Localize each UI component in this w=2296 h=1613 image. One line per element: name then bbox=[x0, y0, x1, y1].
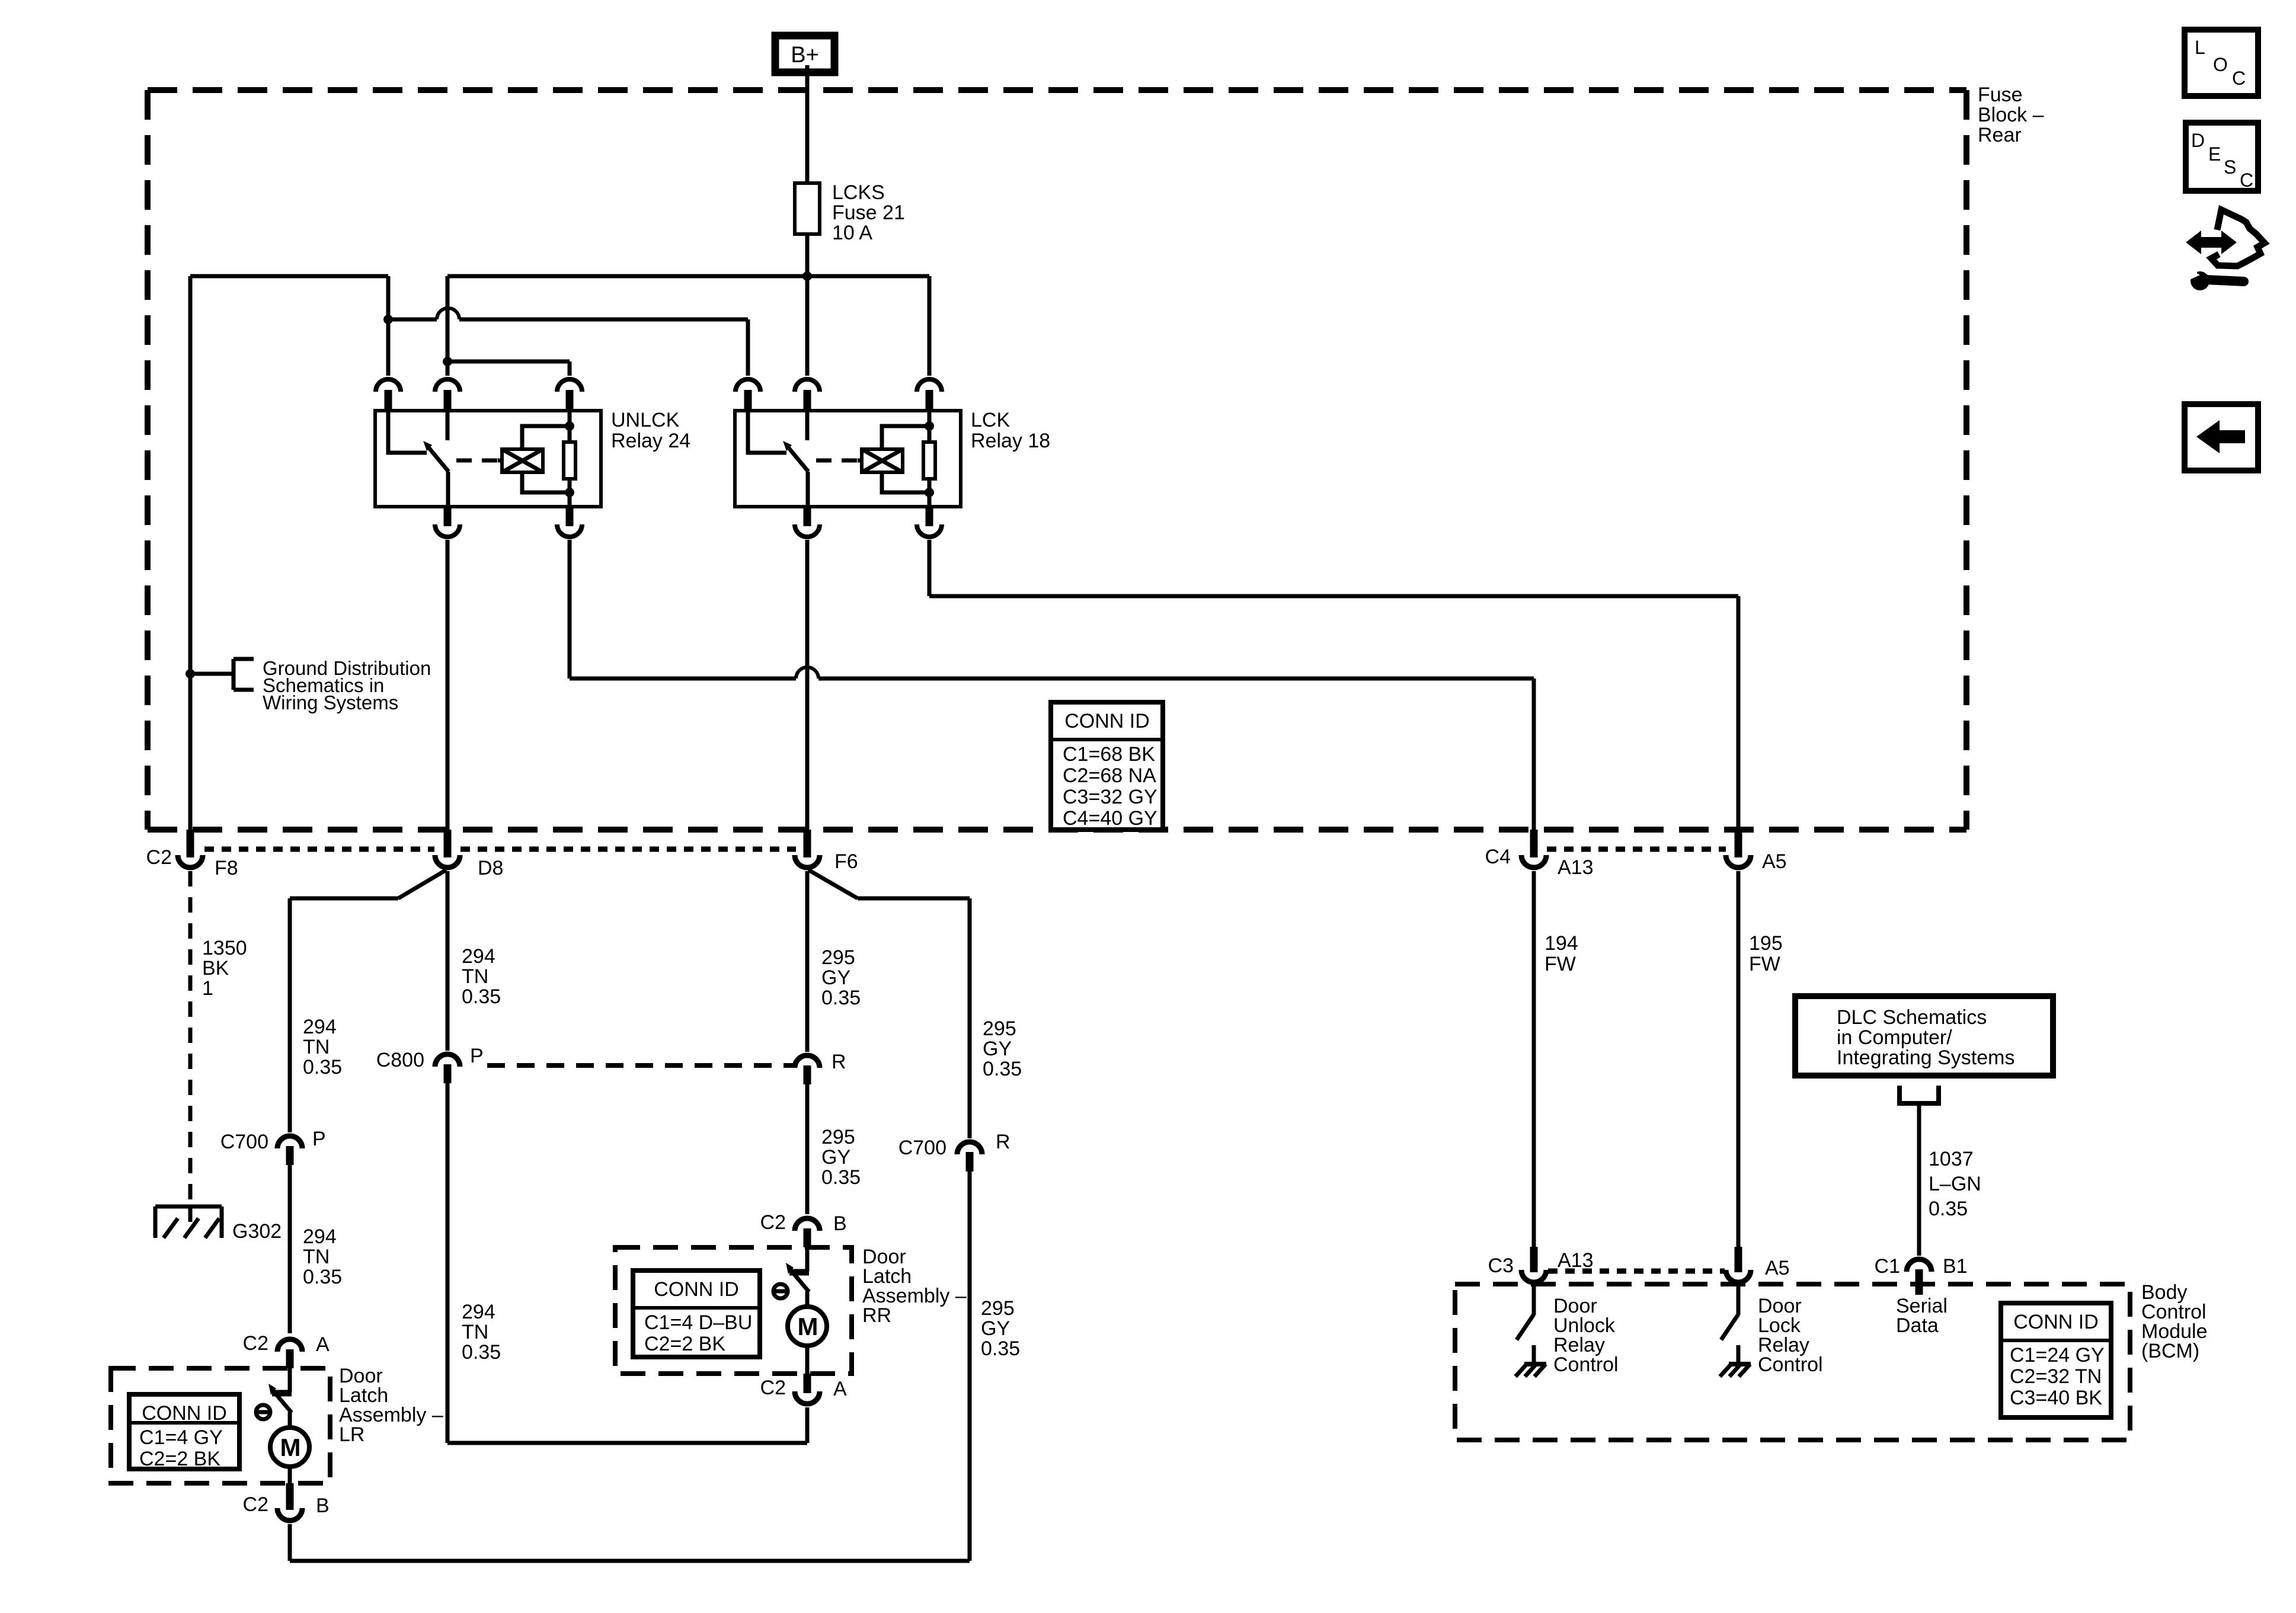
svg-text:0.35: 0.35 bbox=[303, 1056, 342, 1078]
relay coil bbox=[502, 449, 543, 472]
svg-text:A: A bbox=[833, 1378, 847, 1400]
relay coil actuation dashes bbox=[816, 459, 858, 463]
relay top pin 2 bbox=[435, 379, 460, 392]
svg-text:TN: TN bbox=[462, 965, 488, 988]
svg-text:Data: Data bbox=[1896, 1314, 1939, 1337]
svg-text:BK: BK bbox=[202, 957, 229, 980]
relay bottom pin 2 bbox=[795, 524, 820, 537]
svg-text:B1: B1 bbox=[1943, 1255, 1968, 1278]
svg-text:294: 294 bbox=[303, 1016, 337, 1038]
svg-text:C2: C2 bbox=[146, 846, 172, 869]
svg-text:C3: C3 bbox=[1488, 1254, 1514, 1277]
wire C800 R down to RR latch bbox=[805, 1084, 810, 1214]
wire LCK pin2 bottom to F6 bbox=[805, 540, 810, 830]
door latch top connector bbox=[277, 1339, 302, 1352]
svg-text:FW: FW bbox=[1544, 953, 1576, 975]
ground distribution schematics pointer bbox=[190, 672, 234, 676]
relay box LCK Relay 18 bbox=[735, 411, 961, 507]
wire LCK pin3 bottom to A5 bbox=[928, 540, 932, 596]
svg-text:C3=40 BK: C3=40 BK bbox=[2010, 1387, 2102, 1409]
svg-text:C700: C700 bbox=[898, 1137, 946, 1159]
svg-text:C2: C2 bbox=[760, 1377, 786, 1399]
wire 1350 BK dashed to G302 bbox=[188, 871, 193, 1210]
door latch switch bbox=[805, 1247, 810, 1271]
svg-text:295: 295 bbox=[821, 946, 855, 969]
svg-text:LR: LR bbox=[339, 1423, 364, 1446]
svg-text:TN: TN bbox=[303, 1036, 330, 1058]
svg-text:Control: Control bbox=[1758, 1353, 1823, 1376]
connector D8 bbox=[444, 830, 452, 857]
svg-text:LCKS: LCKS bbox=[832, 181, 885, 204]
svg-text:1: 1 bbox=[202, 977, 213, 1000]
door latch bottom connector bbox=[804, 1374, 811, 1393]
svg-text:O: O bbox=[2213, 54, 2228, 75]
ground G302 bbox=[155, 1205, 222, 1209]
door latch dashed box bbox=[111, 1368, 330, 1483]
svg-text:DLC Schematics: DLC Schematics bbox=[1837, 1006, 1987, 1029]
relay internal nodes bbox=[565, 421, 574, 431]
svg-text:B: B bbox=[316, 1494, 330, 1517]
wire UNLCK pin3 bottom to C4 (hops over x=1362) bbox=[568, 540, 572, 679]
dashed link C800 P to R bbox=[487, 1063, 794, 1068]
svg-text:E: E bbox=[2208, 143, 2221, 165]
DLC bracket bbox=[1900, 1086, 1939, 1103]
svg-text:P: P bbox=[470, 1045, 484, 1067]
wire D8 straight down to C800 P bbox=[446, 871, 450, 1051]
svg-text:GY: GY bbox=[821, 966, 850, 989]
svg-text:A5: A5 bbox=[1765, 1257, 1790, 1279]
connector A5 (BCM) bbox=[1735, 1247, 1742, 1272]
svg-text:Block –: Block – bbox=[1978, 104, 2044, 126]
relay bottom pin 3 bbox=[917, 524, 942, 537]
svg-text:0.35: 0.35 bbox=[821, 987, 861, 1009]
svg-text:B: B bbox=[833, 1212, 847, 1235]
svg-text:A13: A13 bbox=[1558, 1249, 1594, 1272]
svg-text:195: 195 bbox=[1749, 932, 1783, 955]
svg-text:Fuse: Fuse bbox=[1978, 84, 2023, 106]
wire A5 down to BCM bbox=[1737, 871, 1741, 1247]
connector C4 A13 bbox=[1530, 830, 1538, 857]
connector A5 (fuse block) bbox=[1735, 830, 1742, 857]
relay internal nodes bbox=[925, 421, 934, 431]
svg-text:10 A: 10 A bbox=[832, 222, 872, 244]
door latch top connector bbox=[795, 1218, 820, 1231]
DLC schematics box bbox=[1795, 996, 2053, 1076]
icon back arrow bbox=[2185, 404, 2258, 471]
BCM dashed box bbox=[1455, 1284, 2130, 1440]
coil parallel loops bbox=[522, 426, 570, 449]
svg-text:UNLCK: UNLCK bbox=[611, 409, 680, 431]
icon LOC bbox=[2185, 30, 2258, 96]
svg-text:C4: C4 bbox=[1485, 846, 1511, 868]
svg-text:1350: 1350 bbox=[202, 937, 247, 959]
wire RR latch A to return bbox=[805, 1407, 810, 1443]
wire C4 A13 down to BCM bbox=[1532, 871, 1536, 1247]
svg-text:0.35: 0.35 bbox=[981, 1337, 1020, 1360]
connector row dotted lines bbox=[204, 847, 434, 852]
CONN ID table bbox=[633, 1270, 760, 1357]
svg-text:G302: G302 bbox=[232, 1220, 282, 1243]
svg-text:C: C bbox=[2240, 169, 2253, 191]
svg-text:C1=68 BK: C1=68 BK bbox=[1063, 743, 1155, 766]
relay coil bbox=[862, 449, 903, 472]
svg-text:A5: A5 bbox=[1762, 850, 1787, 873]
svg-text:GY: GY bbox=[821, 1146, 850, 1169]
svg-text:C2: C2 bbox=[243, 1493, 268, 1516]
battery feed B+ bbox=[775, 36, 834, 72]
svg-text:194: 194 bbox=[1544, 932, 1578, 955]
svg-text:RR: RR bbox=[862, 1304, 891, 1327]
icon jump arrow with wrench bbox=[2186, 231, 2237, 254]
door latch dashed box bbox=[615, 1247, 852, 1374]
svg-text:Relay 18: Relay 18 bbox=[971, 430, 1050, 452]
relay switch bbox=[748, 412, 786, 453]
contact circle symbol bbox=[773, 1284, 788, 1298]
node: junction on C2-F8 drop for ground distribution tap bbox=[186, 669, 195, 679]
wire B+ to fuse to bus bbox=[805, 65, 810, 276]
ground hatch bbox=[1729, 1362, 1751, 1366]
connector C800 R bbox=[795, 1055, 820, 1068]
svg-text:0.35: 0.35 bbox=[462, 1341, 501, 1364]
ground hatch bbox=[1524, 1362, 1546, 1366]
svg-text:C2=2 BK: C2=2 BK bbox=[139, 1448, 220, 1470]
svg-text:0.35: 0.35 bbox=[303, 1266, 342, 1288]
connector C700 P bbox=[277, 1136, 302, 1148]
svg-text:Wiring Systems: Wiring Systems bbox=[263, 692, 398, 713]
wire D8 split diagonal to left leg bbox=[398, 870, 446, 898]
wire LR latch B to return bbox=[288, 1524, 292, 1561]
BCM relay control switch bbox=[1532, 1286, 1536, 1315]
svg-text:294: 294 bbox=[462, 945, 495, 968]
svg-text:(BCM): (BCM) bbox=[2141, 1340, 2199, 1362]
svg-text:M: M bbox=[280, 1433, 301, 1461]
svg-text:C800: C800 bbox=[376, 1049, 424, 1071]
svg-text:D: D bbox=[2191, 130, 2205, 151]
door latch motor M bbox=[288, 1412, 292, 1428]
wire C700 P to LR latch bbox=[288, 1165, 292, 1333]
wire F6 straight down to C800 R bbox=[805, 871, 810, 1052]
svg-text:LCK: LCK bbox=[971, 409, 1010, 431]
svg-text:Rear: Rear bbox=[1978, 124, 2022, 146]
wire 1037 L-GN serial data bbox=[1917, 1103, 1921, 1256]
svg-text:1037: 1037 bbox=[1929, 1148, 1974, 1170]
svg-text:CONN ID: CONN ID bbox=[654, 1278, 739, 1301]
relay switch bbox=[388, 412, 427, 453]
svg-text:CONN ID: CONN ID bbox=[142, 1402, 227, 1425]
door latch bottom connector bbox=[286, 1483, 294, 1510]
CONN ID table bbox=[129, 1394, 239, 1469]
svg-text:F6: F6 bbox=[834, 850, 858, 873]
svg-text:C4=40 GY: C4=40 GY bbox=[1063, 807, 1157, 830]
svg-text:Integrating Systems: Integrating Systems bbox=[1837, 1046, 2014, 1069]
svg-text:C1=4 D–BU: C1=4 D–BU bbox=[644, 1311, 752, 1334]
relay top pin 1 bbox=[736, 379, 760, 392]
svg-text:D8: D8 bbox=[478, 857, 503, 879]
svg-text:C3=32 GY: C3=32 GY bbox=[1063, 786, 1157, 808]
svg-text:Control: Control bbox=[1553, 1353, 1619, 1376]
svg-text:F8: F8 bbox=[215, 857, 238, 879]
svg-text:L–GN: L–GN bbox=[1929, 1173, 1981, 1195]
svg-text:C1: C1 bbox=[1875, 1255, 1900, 1278]
CONN ID table bbox=[2001, 1303, 2111, 1417]
svg-text:C2=68 NA: C2=68 NA bbox=[1063, 764, 1156, 787]
svg-text:C2=32 TN: C2=32 TN bbox=[2010, 1365, 2102, 1388]
svg-text:in Computer/: in Computer/ bbox=[1837, 1026, 1952, 1049]
relay resistor bbox=[928, 411, 932, 442]
wire line3 to UNLCK pin3 bbox=[447, 360, 570, 364]
wire UNLCK pin2 bottom to D8 bbox=[446, 540, 450, 830]
svg-text:C1=4 GY: C1=4 GY bbox=[139, 1426, 223, 1449]
door latch switch bbox=[288, 1368, 292, 1392]
wire C800 P down to RR latch return bbox=[446, 1083, 450, 1443]
svg-text:0.35: 0.35 bbox=[821, 1166, 861, 1189]
svg-text:B+: B+ bbox=[791, 43, 819, 68]
svg-text:295: 295 bbox=[821, 1126, 855, 1148]
relay top pin 3 bbox=[557, 379, 582, 392]
connector C800 P bbox=[435, 1054, 460, 1067]
svg-text:P: P bbox=[312, 1128, 326, 1150]
relay box UNLCK Relay 24 bbox=[375, 411, 601, 507]
relay top pin 2 bbox=[795, 379, 820, 392]
svg-text:A: A bbox=[316, 1333, 330, 1356]
svg-text:C2: C2 bbox=[243, 1332, 268, 1355]
relay bottom pin 2 bbox=[435, 524, 460, 537]
svg-text:C2: C2 bbox=[760, 1211, 786, 1234]
svg-text:L: L bbox=[2195, 37, 2205, 58]
svg-text:294: 294 bbox=[303, 1225, 337, 1248]
svg-text:GY: GY bbox=[981, 1317, 1010, 1340]
relay bottom pin 3 bbox=[557, 524, 582, 537]
svg-text:FW: FW bbox=[1749, 953, 1780, 975]
svg-text:Relay 24: Relay 24 bbox=[611, 430, 690, 452]
svg-text:CONN ID: CONN ID bbox=[1064, 710, 1150, 732]
svg-text:295: 295 bbox=[983, 1017, 1016, 1040]
svg-text:295: 295 bbox=[981, 1297, 1015, 1320]
relay top pin 3 bbox=[917, 379, 942, 392]
svg-text:C: C bbox=[2232, 68, 2246, 89]
svg-text:TN: TN bbox=[462, 1321, 488, 1343]
BCM relay control switch bbox=[1737, 1286, 1741, 1315]
svg-text:C1=24 GY: C1=24 GY bbox=[2010, 1344, 2105, 1366]
wire: left power branch to UNLCK pin1 and F8 bbox=[190, 274, 388, 279]
connector C2 F8 bbox=[187, 830, 194, 857]
relay resistor bbox=[568, 411, 572, 442]
svg-text:TN: TN bbox=[303, 1246, 330, 1268]
wire line2 to LCK relay pin1 (hops over x=755) bbox=[388, 318, 437, 322]
svg-text:R: R bbox=[832, 1051, 846, 1073]
svg-text:Fuse 21: Fuse 21 bbox=[832, 201, 905, 224]
CONN ID table bbox=[1051, 702, 1163, 830]
svg-text:C700: C700 bbox=[220, 1131, 268, 1153]
wire F6 split diagonal to right leg bbox=[808, 870, 858, 898]
svg-text:R: R bbox=[996, 1131, 1011, 1153]
door latch motor M bbox=[805, 1291, 810, 1307]
contact circle symbol bbox=[256, 1405, 270, 1419]
icon DESC bbox=[2186, 123, 2258, 191]
coil parallel loops bbox=[882, 426, 929, 449]
relay coil actuation dashes bbox=[456, 459, 498, 463]
svg-text:CONN ID: CONN ID bbox=[2013, 1311, 2099, 1333]
connector C1 B1 bbox=[1907, 1259, 1932, 1272]
wire line1b: fused feed to relays bbox=[447, 274, 929, 279]
svg-text:GY: GY bbox=[983, 1038, 1012, 1060]
fuse LCKS Fuse 21 10A bbox=[795, 183, 820, 234]
svg-text:0.35: 0.35 bbox=[1929, 1198, 1968, 1220]
wire C700 R down to LR latch return bbox=[968, 1172, 972, 1561]
relay top pin 1 bbox=[376, 379, 401, 392]
connector C3 A13 (BCM) bbox=[1530, 1247, 1538, 1272]
svg-text:0.35: 0.35 bbox=[983, 1058, 1022, 1080]
svg-text:M: M bbox=[798, 1313, 818, 1340]
svg-text:C2=2 BK: C2=2 BK bbox=[644, 1333, 725, 1355]
connector C700 R bbox=[957, 1142, 982, 1154]
fuse block rear dashed boundary bbox=[148, 87, 1966, 93]
svg-text:A13: A13 bbox=[1558, 856, 1594, 879]
svg-text:S: S bbox=[2224, 156, 2236, 178]
svg-text:294: 294 bbox=[462, 1301, 495, 1323]
connector F6 bbox=[804, 830, 811, 857]
BCM fine dotted connector line bbox=[1548, 1269, 1725, 1274]
svg-text:0.35: 0.35 bbox=[462, 985, 501, 1008]
